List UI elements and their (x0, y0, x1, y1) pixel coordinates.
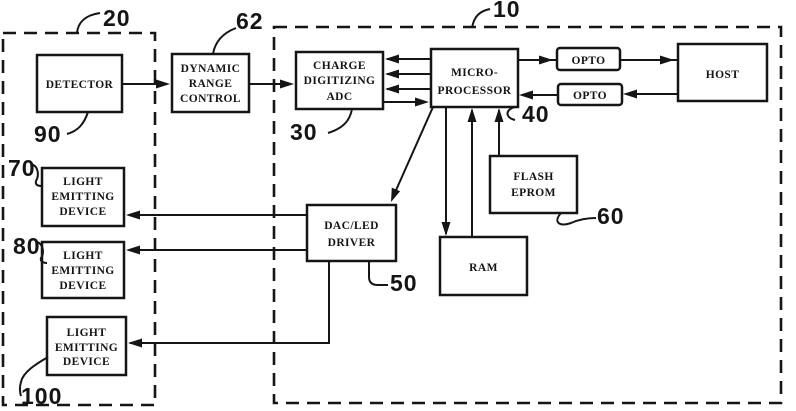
svg-text:30: 30 (290, 119, 318, 145)
svg-text:PROCESSOR: PROCESSOR (438, 85, 512, 97)
svg-text:100: 100 (21, 383, 62, 409)
dashed enclosure 20 (3, 33, 155, 405)
reference numeral 62 with leader (213, 8, 264, 54)
reference numeral 100 with leader (20, 357, 63, 409)
wire detector to dynamic range control (122, 80, 170, 89)
svg-text:DAC/LED: DAC/LED (324, 220, 379, 232)
block RAM (440, 237, 527, 295)
svg-text:RAM: RAM (469, 262, 498, 274)
block LIGHT EMITTING DEVICE 100 (47, 317, 126, 375)
svg-text:DIGITIZING: DIGITIZING (304, 75, 376, 87)
svg-text:CHARGE: CHARGE (313, 60, 366, 72)
svg-text:ADC: ADC (326, 91, 352, 103)
wire lower OPTO to microprocessor (519, 91, 558, 100)
svg-text:DEVICE: DEVICE (63, 356, 110, 368)
reference numeral 10 with leader (472, 0, 521, 28)
wire FLASH EPROM to microprocessor (495, 108, 504, 156)
wire ADC to microprocessor line 4 (383, 98, 429, 107)
wire HOST to lower OPTO (623, 90, 678, 99)
block LIGHT EMITTING DEVICE 80 (42, 242, 124, 298)
reference numeral 80 with leader (13, 233, 47, 263)
dashed enclosure 10 (274, 27, 781, 403)
wire microprocessor to DAC/LED driver (diagonal) (391, 107, 433, 202)
reference numeral 40 with leader (507, 101, 549, 127)
block LIGHT EMITTING DEVICE 70 (42, 168, 124, 226)
wire microprocessor to RAM (442, 107, 451, 236)
svg-text:DYNAMIC: DYNAMIC (181, 63, 241, 75)
block MICRO-PROCESSOR 40 (431, 49, 518, 107)
wire DAC/LED driver to light emitting device 70 (126, 211, 307, 220)
wire DAC/LED driver to light emitting device 100 (128, 261, 329, 348)
svg-text:DEVICE: DEVICE (59, 206, 106, 218)
wire microprocessor to ADC line 1 (385, 55, 431, 64)
block CHARGE DIGITIZING ADC 30 (296, 52, 383, 109)
svg-text:HOST: HOST (706, 69, 740, 81)
svg-text:CONTROL: CONTROL (180, 93, 241, 105)
svg-text:OPTO: OPTO (572, 55, 606, 67)
reference numeral 50 with leader (369, 261, 418, 296)
svg-text:RANGE: RANGE (189, 78, 233, 90)
reference numeral 20 with leader (77, 5, 131, 33)
svg-text:20: 20 (103, 5, 131, 31)
block DYNAMIC RANGE CONTROL 62 (172, 54, 249, 112)
block DETECTOR 90 (37, 55, 122, 112)
wire RAM to microprocessor (468, 108, 477, 237)
wire dynamic range control to ADC (249, 80, 294, 89)
svg-text:62: 62 (236, 8, 264, 34)
svg-text:50: 50 (390, 270, 418, 296)
reference numeral 30 with leader (290, 109, 352, 145)
svg-text:DEVICE: DEVICE (59, 280, 106, 292)
reference numeral 60 with leader (557, 203, 624, 229)
wire DAC/LED driver to light emitting device 80 (126, 246, 307, 255)
block HOST (678, 44, 767, 101)
wire microprocessor to upper OPTO (518, 56, 557, 65)
svg-text:FLASH: FLASH (513, 171, 553, 183)
svg-text:LIGHT: LIGHT (67, 327, 107, 339)
wire microprocessor to ADC line 2 (385, 70, 431, 79)
block DAC/LED DRIVER 50 (307, 205, 396, 261)
svg-text:LIGHT: LIGHT (63, 250, 103, 262)
svg-text:DRIVER: DRIVER (328, 237, 376, 249)
svg-text:40: 40 (522, 101, 550, 127)
svg-text:90: 90 (34, 121, 62, 147)
svg-text:DETECTOR: DETECTOR (46, 79, 114, 91)
svg-text:EMITTING: EMITTING (51, 265, 114, 277)
svg-text:LIGHT: LIGHT (63, 176, 103, 188)
svg-text:EPROM: EPROM (511, 187, 556, 199)
svg-text:OPTO: OPTO (573, 90, 607, 102)
wire upper OPTO to HOST (620, 56, 678, 65)
svg-text:10: 10 (493, 0, 521, 22)
svg-text:80: 80 (13, 233, 41, 259)
reference numeral 70 with leader (8, 155, 42, 186)
reference numeral 90 with leader (34, 112, 88, 147)
block OPTO upper (557, 48, 620, 70)
svg-text:70: 70 (8, 155, 36, 181)
svg-text:MICRO-: MICRO- (451, 67, 498, 79)
svg-text:EMITTING: EMITTING (55, 342, 118, 354)
svg-text:EMITTING: EMITTING (51, 191, 114, 203)
wire microprocessor to ADC line 3 (385, 85, 431, 94)
block FLASH EPROM 60 (490, 156, 577, 213)
svg-text:60: 60 (597, 203, 625, 229)
block OPTO lower (558, 84, 622, 105)
